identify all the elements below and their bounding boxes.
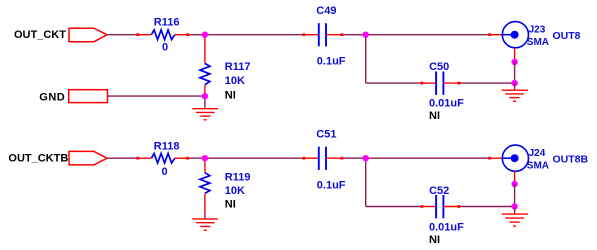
- branch wire down from C51 junction: [365, 158, 367, 206]
- wire end marker: [458, 205, 461, 208]
- wire end marker: [421, 205, 424, 208]
- wire end marker: [341, 33, 344, 36]
- svg-text:J23: J23: [529, 24, 546, 35]
- resistor R116: [151, 30, 175, 40]
- node dot J23 bottom: [511, 59, 517, 65]
- svg-text:GND: GND: [39, 91, 65, 103]
- wire GND to R117 bottom: [108, 95, 205, 97]
- wire C52 to J24 ground: [459, 206, 514, 208]
- wire end marker: [186, 33, 189, 36]
- svg-text:OUT8B: OUT8B: [553, 153, 589, 165]
- svg-text:C52: C52: [429, 185, 449, 197]
- ground stem under J23: [514, 83, 516, 90]
- wire end marker: [488, 33, 491, 36]
- svg-text:C49: C49: [316, 5, 336, 17]
- ground symbol under J23: [502, 90, 528, 101]
- junction dot C50/J23 ground: [511, 80, 517, 86]
- wire end marker: [137, 157, 140, 160]
- connector J23 SMA: [502, 22, 528, 48]
- connector J24 SMA: [502, 145, 528, 171]
- svg-text:J24: J24: [529, 148, 546, 159]
- pin C50 right: [443, 82, 460, 84]
- wire C50 to J23 ground: [459, 82, 514, 84]
- branch wire to C50: [366, 82, 422, 84]
- node dot J24 bottom: [511, 181, 517, 187]
- port symbol OUT_CKT: [69, 28, 107, 42]
- pin R118 left: [138, 157, 152, 159]
- junction dot C51 branch: [363, 155, 369, 161]
- pin R116 right: [175, 34, 189, 36]
- svg-text:R117: R117: [225, 61, 251, 73]
- branch wire to C52: [366, 206, 422, 208]
- ground symbol under R117: [192, 109, 218, 120]
- wire end marker: [137, 33, 140, 36]
- svg-text:NI: NI: [429, 234, 440, 246]
- svg-text:0: 0: [162, 166, 168, 178]
- capacitor C52: [436, 195, 443, 218]
- junction dot R118/R119: [202, 155, 208, 161]
- pin R116 left: [138, 34, 152, 36]
- capacitor C51: [319, 147, 326, 170]
- pin C49 left: [304, 34, 319, 36]
- resistor R117 pin top: [204, 35, 206, 64]
- pin R119 bottom: [204, 194, 206, 215]
- wire end marker: [421, 82, 424, 85]
- svg-text:C51: C51: [316, 129, 336, 141]
- ground stem under R117: [204, 96, 206, 109]
- pin R118 right: [175, 157, 189, 159]
- svg-text:0.1uF: 0.1uF: [317, 56, 346, 68]
- svg-text:0.1uF: 0.1uF: [317, 180, 346, 192]
- wire C49 to J23: [342, 34, 489, 36]
- wire port to R118: [107, 157, 138, 159]
- svg-text:0: 0: [162, 42, 168, 54]
- wire port to R116: [107, 34, 138, 36]
- wire C51 to J24: [342, 157, 489, 159]
- wire end marker: [186, 157, 189, 160]
- svg-text:OUT_CKT: OUT_CKT: [14, 29, 66, 41]
- ground symbol under R119: [192, 219, 218, 230]
- wire end marker: [303, 33, 306, 36]
- pin C50 left: [421, 82, 436, 84]
- capacitor C49: [319, 23, 326, 46]
- wire J23 bottom to ground junction: [514, 62, 516, 83]
- port symbol OUT_CKTB: [69, 151, 107, 165]
- pin C51 right: [326, 157, 343, 159]
- wire R118 to C51: [189, 157, 305, 159]
- pin J23: [489, 34, 502, 36]
- ground stem under R119: [204, 214, 206, 219]
- pin C52 left: [421, 206, 436, 208]
- wire end marker: [303, 157, 306, 160]
- svg-text:OUT8: OUT8: [553, 30, 581, 42]
- svg-text:NI: NI: [225, 199, 236, 211]
- pin C52 right: [443, 206, 460, 208]
- junction dot R116/R117: [202, 32, 208, 38]
- branch wire down from C49 junction: [365, 35, 367, 83]
- svg-text:10K: 10K: [225, 75, 245, 87]
- pin J23 bottom: [514, 48, 516, 60]
- svg-text:10K: 10K: [225, 185, 245, 197]
- junction dot C49 branch: [363, 32, 369, 38]
- port symbol GND: [69, 90, 108, 103]
- svg-text:OUT_CKTB: OUT_CKTB: [8, 153, 68, 165]
- pin J24 bottom: [514, 171, 516, 183]
- svg-text:NI: NI: [429, 110, 440, 122]
- svg-text:R118: R118: [154, 141, 180, 153]
- svg-text:0.01uF: 0.01uF: [429, 222, 464, 234]
- wire end marker: [458, 82, 461, 85]
- ground symbol under J24: [502, 214, 528, 226]
- pin C51 left: [304, 157, 319, 159]
- resistor R119 pin top: [204, 158, 206, 173]
- svg-text:R116: R116: [154, 17, 180, 29]
- svg-text:0.01uF: 0.01uF: [429, 98, 464, 110]
- svg-text:C50: C50: [429, 61, 449, 73]
- wire J24 bottom to ground junction: [514, 184, 516, 207]
- resistor R119: [200, 173, 210, 194]
- pin R117 bottom: [204, 85, 206, 96]
- wire end marker: [341, 157, 344, 160]
- svg-text:SMA: SMA: [527, 37, 549, 48]
- wire end marker: [488, 157, 491, 160]
- pin J24: [489, 157, 502, 159]
- wire R116 to C49: [189, 34, 305, 36]
- svg-text:SMA: SMA: [527, 160, 549, 171]
- resistor R118: [151, 153, 175, 163]
- pin C49 right: [326, 34, 343, 36]
- svg-text:NI: NI: [225, 89, 236, 101]
- svg-text:R119: R119: [225, 172, 251, 184]
- resistor R117: [200, 63, 210, 84]
- ground stem under J24: [514, 207, 516, 215]
- capacitor C50: [436, 72, 443, 95]
- junction dot C52/J24 ground: [511, 203, 517, 209]
- junction dot R117/GND: [202, 93, 208, 99]
